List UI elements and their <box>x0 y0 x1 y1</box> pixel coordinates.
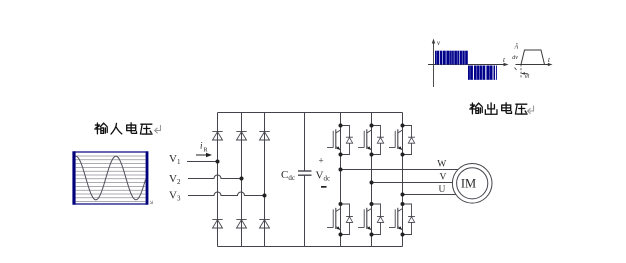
char 电 <box>502 103 512 114</box>
PWM negative half-cycle bar block <box>468 66 497 80</box>
box border <box>73 152 148 204</box>
output wire W <box>341 169 459 171</box>
svg-text:V2: V2 <box>169 173 181 186</box>
svg-text:V1: V1 <box>169 153 181 166</box>
ruled grid lines <box>76 156 146 201</box>
char 压 <box>515 104 527 114</box>
label - (minus) <box>321 186 327 188</box>
sine curve <box>76 156 146 200</box>
junction node W/leg1 <box>339 168 343 172</box>
junction node V3/leg3 <box>263 194 267 198</box>
dt arrow <box>522 73 527 75</box>
return mark after 输出电压 <box>528 106 534 114</box>
IGBT Q5 (lower leg2) <box>358 202 384 237</box>
rectifier leg 1 wire <box>217 113 219 247</box>
inverter leg 2 wire <box>371 113 373 247</box>
rectifier diode D4 (lower leg1) <box>212 220 222 229</box>
svg-text:V3: V3 <box>169 190 181 203</box>
rectifier diode D6 (lower leg3) <box>259 220 269 229</box>
char 输 <box>470 103 483 114</box>
IGBT Q1 (upper leg1) with antiparallel diode <box>327 124 353 157</box>
char 电 <box>127 123 137 134</box>
svg-text:+: + <box>319 156 324 166</box>
svg-text:R: R <box>204 148 208 154</box>
junction node V/leg2 <box>370 181 374 185</box>
rectifier leg 3 wire <box>264 113 266 247</box>
corner tick bottom-right <box>150 201 153 204</box>
IGBT Q3 (upper leg3) <box>389 124 415 157</box>
output wire U <box>403 194 460 196</box>
dt dashed marker line <box>520 65 522 79</box>
phase input wire V2 with hop over leg1 <box>188 175 242 178</box>
svg-text:t: t <box>548 56 551 64</box>
bottom DC rail <box>218 246 403 248</box>
svg-text:Vdc: Vdc <box>316 170 331 183</box>
svg-text:IM: IM <box>461 177 476 191</box>
PWM positive half-cycle bar block <box>435 51 468 65</box>
input current arrow i_R <box>196 141 212 158</box>
return mark after 输入电压 <box>155 125 161 133</box>
inverter leg 3 wire <box>402 113 404 247</box>
PWM horizontal axis (t) <box>428 64 506 66</box>
svg-text:Cdc: Cdc <box>281 169 295 182</box>
rectifier diode D2 (upper leg2) <box>236 132 246 141</box>
capacitor top wire <box>304 113 306 172</box>
capacitor bottom wire <box>304 175 306 246</box>
svg-text:W: W <box>437 160 446 170</box>
top DC rail <box>218 112 403 114</box>
svg-text:V: V <box>440 172 447 182</box>
motor IM inner circle <box>457 168 488 199</box>
trapezoid pulse <box>521 50 545 65</box>
char 入 <box>111 123 122 134</box>
char 输 <box>95 123 108 134</box>
junction node V2/leg2 <box>240 177 244 181</box>
svg-text:Â: Â <box>514 43 519 51</box>
rectifier leg 2 wire <box>241 113 243 247</box>
capacitor C_dc plates <box>298 171 312 175</box>
IGBT Q4 (lower leg1) <box>327 202 353 237</box>
IGBT Q2 (upper leg2) <box>358 124 384 157</box>
rectifier diode D5 (lower leg2) <box>236 220 246 229</box>
svg-text:v: v <box>437 39 441 47</box>
svg-text:t: t <box>503 56 506 64</box>
svg-text:dv: dv <box>512 55 518 61</box>
char 出 <box>485 103 497 114</box>
trapezoid time axis <box>516 64 551 66</box>
junction node U/leg3 <box>401 193 405 197</box>
IGBT Q6 (lower leg3) <box>389 202 415 237</box>
thick right border bar <box>146 151 149 204</box>
char 压 <box>140 124 152 134</box>
phase input wire V3 with hops over leg1 and leg2 <box>188 192 265 195</box>
thick left border bar <box>73 151 76 204</box>
svg-text:U: U <box>439 185 446 195</box>
rectifier diode D3 (upper leg3) <box>259 132 269 141</box>
svg-text:dt: dt <box>525 73 530 79</box>
motor IM outer circle <box>452 164 492 204</box>
PWM vertical axis (v) <box>433 41 435 87</box>
rectifier diode D1 (upper leg1) <box>212 132 222 141</box>
junction node V1/leg1 <box>216 160 220 164</box>
phase input wire V1 <box>187 161 218 163</box>
inverter leg 1 wire <box>340 113 342 247</box>
output wire V <box>372 182 453 184</box>
